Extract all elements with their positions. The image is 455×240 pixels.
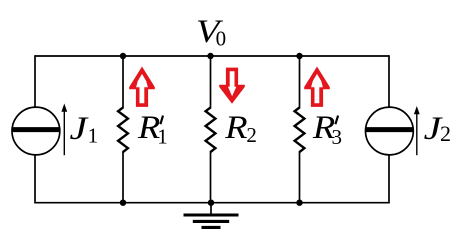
label R'1 <box>137 110 168 149</box>
wire resistor column 2 upper <box>210 56 212 109</box>
wire resistor column 1 upper <box>122 56 124 109</box>
wire right column upper <box>388 55 390 107</box>
resistor R'3 <box>295 108 305 153</box>
red block arrow up over R'3 <box>304 67 330 107</box>
node dot top of R'1 <box>120 53 126 59</box>
svg-text:R: R <box>224 110 247 146</box>
resistor R2 <box>206 108 216 153</box>
wire right column lower <box>388 155 390 203</box>
wire resistor column 2 lower <box>210 151 212 203</box>
wire resistor column 1 lower <box>122 151 124 203</box>
svg-text:2: 2 <box>440 121 451 146</box>
label J1 <box>70 110 99 147</box>
node dot top of R2 <box>207 53 213 59</box>
label R'3 <box>312 110 342 149</box>
svg-text:0: 0 <box>216 27 227 51</box>
resistor R'1 <box>118 108 128 153</box>
current source J1 <box>12 107 60 155</box>
wire bottom rail <box>35 202 389 204</box>
ground <box>184 203 239 228</box>
red block arrow up over R'1 <box>129 67 155 107</box>
current source J2 <box>366 107 414 155</box>
node dot bottom of R2 <box>208 200 214 206</box>
wire resistor column 3 lower <box>299 151 301 203</box>
wire top rail <box>35 55 389 57</box>
svg-text:1: 1 <box>88 124 99 148</box>
svg-text:2: 2 <box>246 123 257 147</box>
svg-text:3: 3 <box>332 125 343 149</box>
svg-text:J: J <box>70 110 90 146</box>
label J2 <box>424 110 451 146</box>
wire resistor column 3 upper <box>299 56 301 109</box>
node dot top of R'3 <box>296 53 302 59</box>
current arrow for J2 <box>414 106 420 155</box>
node dot bottom of R'3 <box>296 200 302 206</box>
wire left column upper <box>34 55 36 107</box>
current arrow for J1 <box>61 104 67 156</box>
red block arrow down over R2 <box>219 68 245 104</box>
label R2 <box>224 110 257 147</box>
svg-text:1: 1 <box>157 125 168 149</box>
label V0 <box>196 14 226 51</box>
wire left column lower <box>34 155 36 203</box>
node dot bottom of R'1 <box>120 200 126 206</box>
